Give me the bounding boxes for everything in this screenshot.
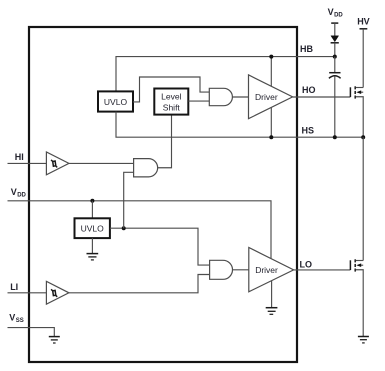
wire UVLO2 output: [110, 228, 210, 265]
wire LI buffer output to AND3: [69, 275, 210, 293]
svg-text:Driver: Driver: [255, 265, 278, 275]
wire HB bias into driver: [270, 57, 272, 87]
node HS driver bias: [269, 135, 273, 139]
wire VDD to UVLO2: [91, 201, 93, 219]
body arrow: [358, 264, 363, 266]
UVLO U5 (low side): [75, 218, 110, 238]
wire diode to HB node: [334, 43, 336, 57]
svg-text:V: V: [11, 187, 17, 197]
svg-text:HV: HV: [357, 16, 370, 26]
wire UVLO2 ground stem: [91, 238, 93, 254]
hysteresis mark in U3: [51, 160, 57, 168]
UVLO U1 (high side): [98, 91, 133, 111]
AND gate A2 (HI path): [134, 159, 158, 177]
drain stub: [356, 260, 363, 262]
node HB junction: [333, 55, 337, 59]
svg-text:UVLO: UVLO: [81, 223, 105, 233]
AND gate A1 (high side): [209, 88, 232, 105]
svg-text:V: V: [9, 313, 15, 323]
IC boundary box: [29, 27, 297, 362]
svg-text:SS: SS: [16, 318, 24, 324]
capacitor C1 (bootstrap): [329, 72, 340, 74]
wire VDD terminal to diode: [334, 23, 336, 36]
level shift U2: [154, 89, 188, 115]
diode D1 (bootstrap): [331, 36, 339, 42]
node HS-cap junction: [333, 135, 337, 139]
ground (VSS): [49, 337, 60, 343]
channel dashes: [354, 86, 356, 89]
transistor Q2 (low side MOSFET): [350, 259, 363, 336]
driver U7 (low side): [249, 248, 294, 292]
svg-text:Shift: Shift: [163, 103, 181, 113]
gate bar: [349, 260, 351, 270]
svg-text:DD: DD: [17, 193, 26, 199]
svg-text:HO: HO: [302, 85, 316, 95]
wire HV rail to Q1 drain: [362, 29, 364, 88]
source stub: [356, 270, 363, 337]
driver U6 (high side): [249, 75, 293, 119]
wire HB node down to cap: [334, 57, 336, 72]
svg-text:HI: HI: [15, 152, 24, 162]
wire cap to HS: [334, 76, 336, 137]
transistor Q1 (high side MOSFET): [350, 86, 363, 137]
wire UVLO1 output to AND1: [133, 77, 209, 102]
ground (below low-side driver): [266, 308, 278, 315]
wire level shift output: [188, 100, 209, 102]
svg-text:Driver: Driver: [255, 92, 278, 102]
svg-text:LI: LI: [10, 282, 18, 292]
wire LO line: [294, 269, 351, 271]
svg-text:LO: LO: [300, 260, 313, 270]
ground (below Q2): [358, 337, 369, 343]
wire HS to Q2 drain: [362, 137, 364, 260]
node HB driver bias: [269, 55, 273, 59]
svg-text:V: V: [328, 7, 334, 17]
svg-text:UVLO: UVLO: [104, 97, 128, 107]
hysteresis mark in U4: [51, 289, 57, 297]
node UVLO2 output junction: [122, 226, 126, 230]
wire AND1 output to driver: [232, 96, 248, 98]
wire driver to HS bias: [270, 108, 272, 138]
svg-text:Level: Level: [161, 92, 181, 102]
ground (below low-side UVLO): [87, 254, 99, 260]
wire LI input stub: [8, 292, 47, 294]
wire AND3 output to driver2: [233, 269, 249, 271]
wire VDD rail: [8, 201, 272, 259]
drain stub: [356, 87, 363, 89]
wire HI input stub: [8, 162, 47, 164]
wire HO line: [293, 96, 351, 98]
wire AND2 output up to level shift: [158, 115, 172, 168]
svg-text:HS: HS: [302, 126, 315, 136]
buffer U3 (HI Schmitt input): [46, 152, 69, 175]
wire HB rail inside IC: [116, 57, 335, 92]
body arrow: [358, 91, 363, 93]
channel dashes: [354, 259, 356, 262]
source stub: [356, 97, 363, 137]
AND gate A3 (low side): [210, 260, 233, 279]
wire HI buffer output to AND: [69, 162, 134, 164]
wire driver2 ground stem: [271, 281, 273, 308]
wire UVLO2 out up to AND2 input: [124, 172, 134, 228]
buffer U4 (LI Schmitt input): [46, 281, 69, 304]
wire VSS stub: [8, 328, 55, 337]
svg-text:DD: DD: [334, 13, 343, 19]
gate bar: [349, 87, 351, 97]
node HS-FET junction: [361, 135, 365, 139]
svg-text:HB: HB: [300, 44, 313, 54]
wire UVLO1 bottom to HS rail: [116, 112, 363, 138]
node VDD-UVLO junction: [90, 199, 94, 203]
